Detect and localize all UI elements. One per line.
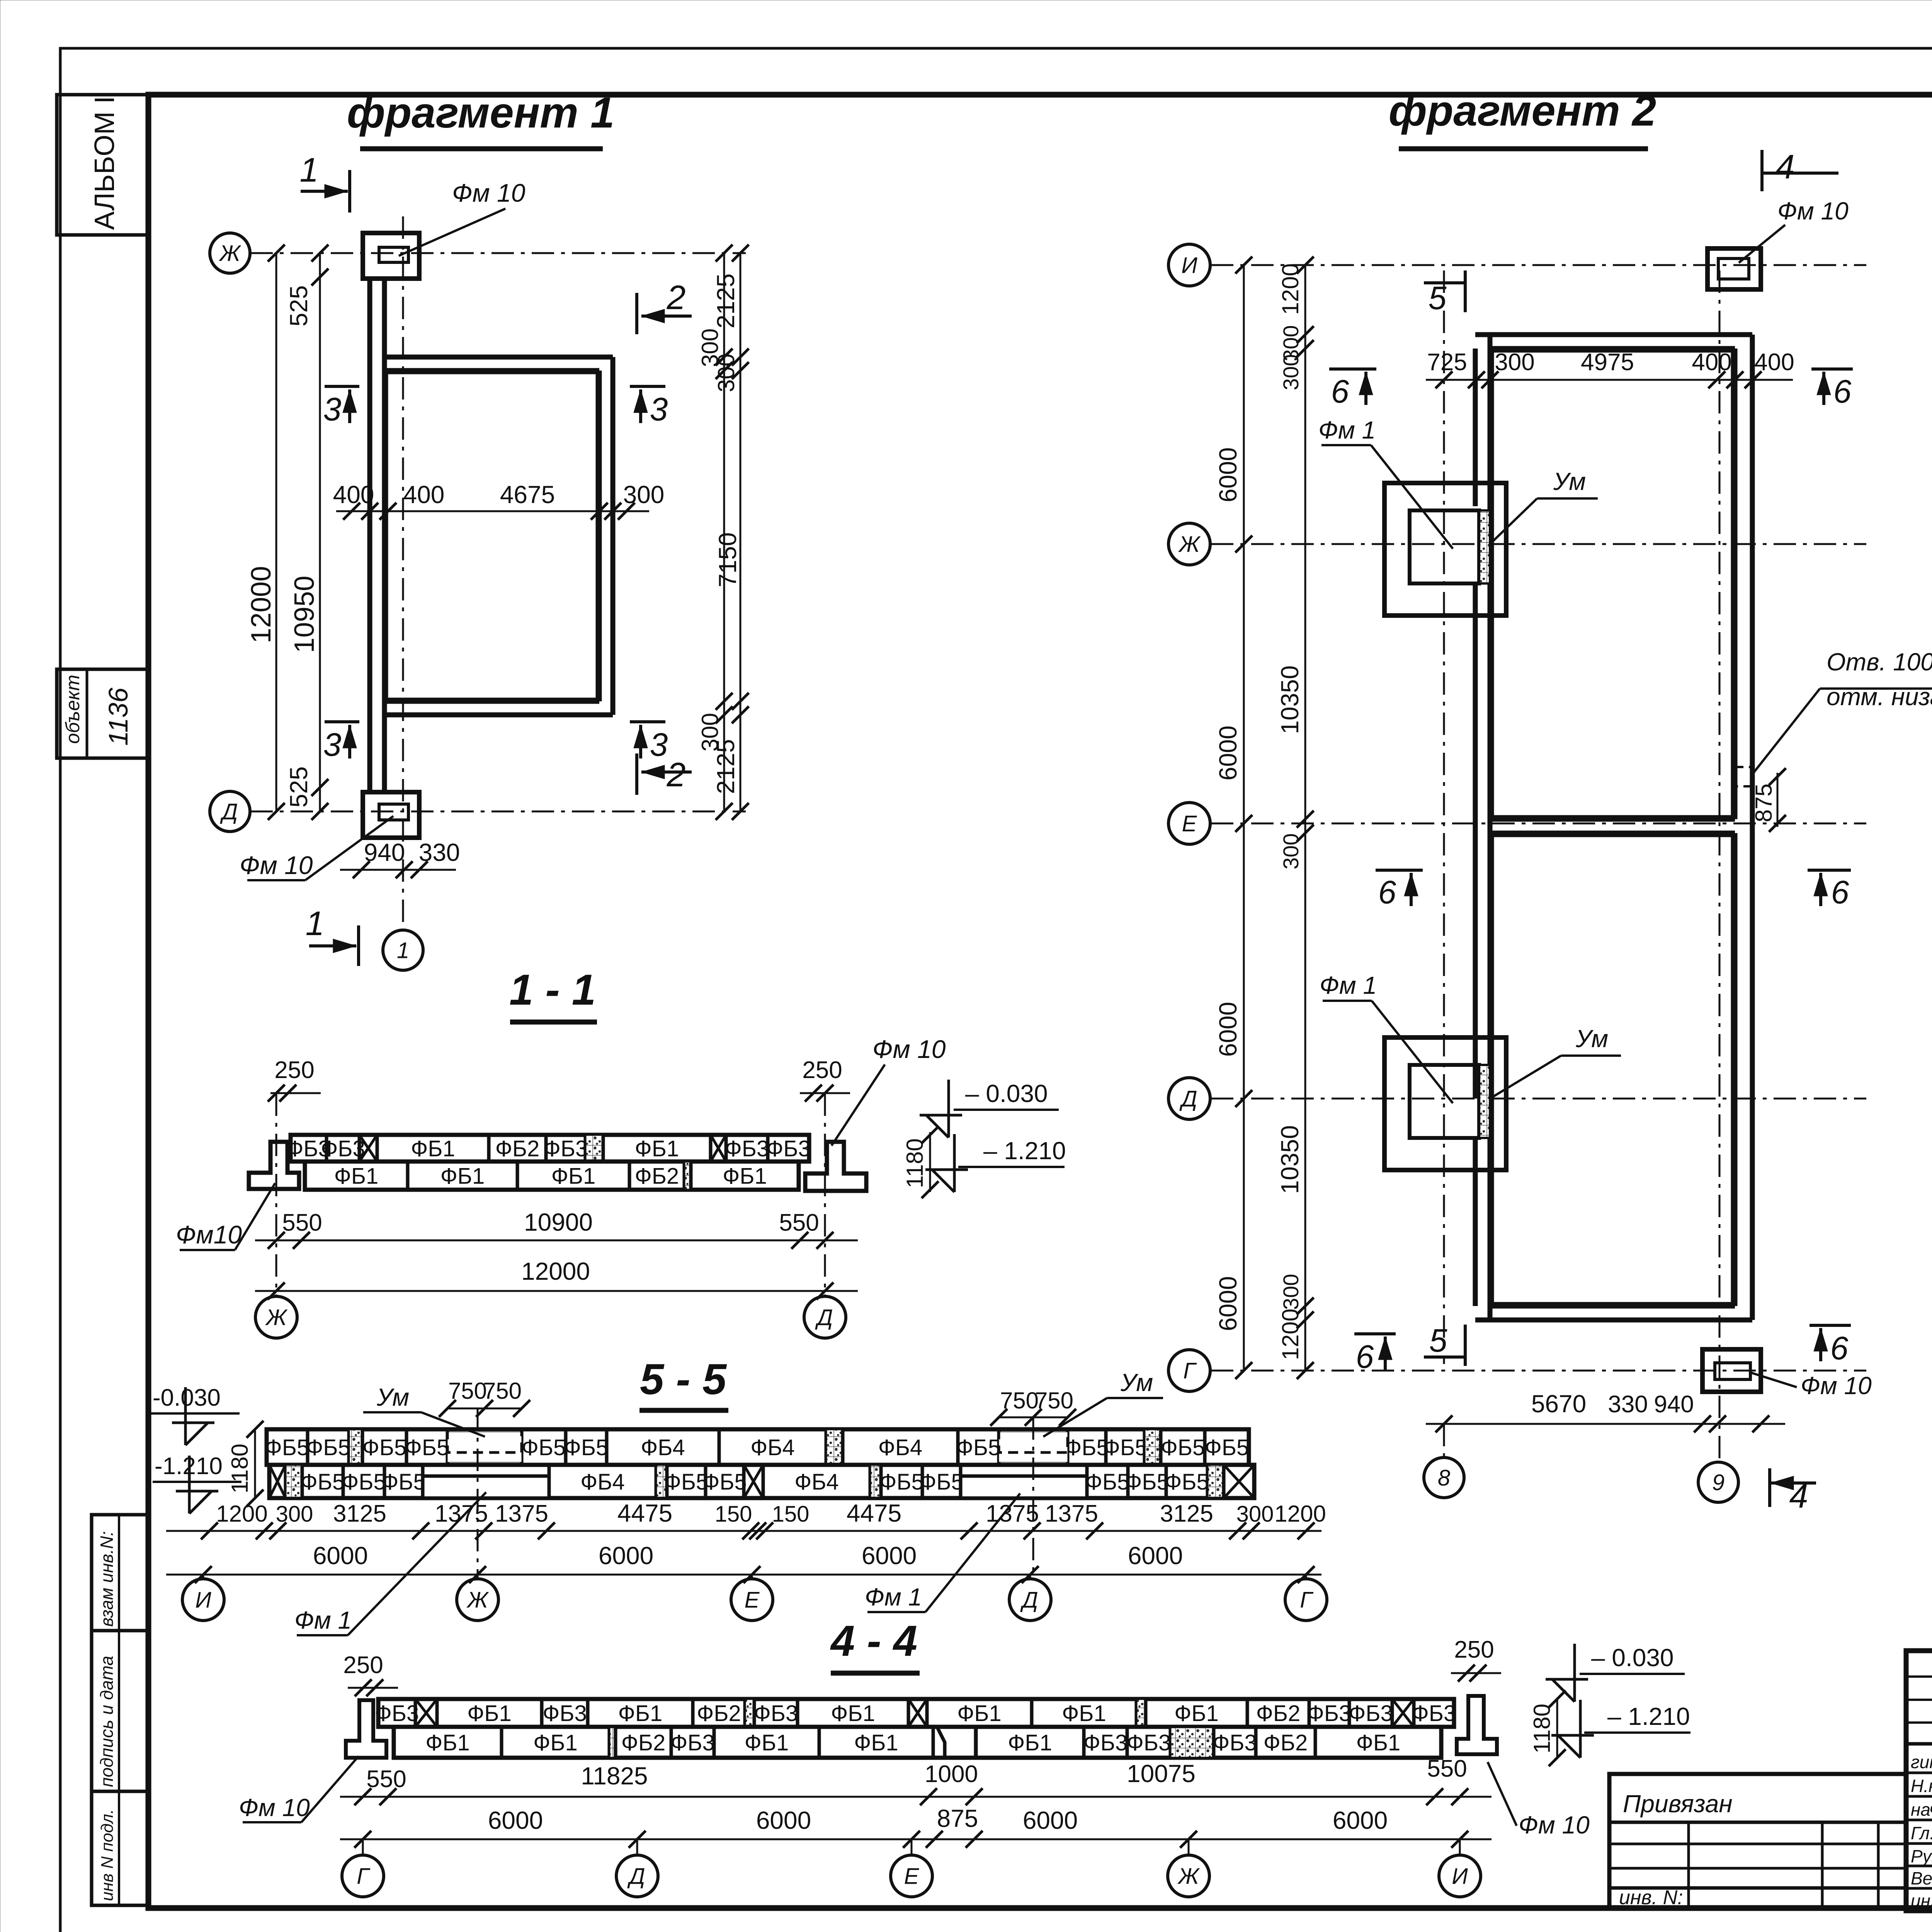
svg-text:150: 150 (772, 1502, 810, 1527)
svg-text:– 0.030: – 0.030 (965, 1080, 1048, 1107)
section mark 3 bottom left (325, 720, 359, 723)
grid circle D (210, 791, 250, 832)
svg-text:И: И (1452, 1864, 1468, 1889)
svg-text:ФБ3: ФБ3 (544, 1136, 588, 1161)
axis stub circle 9 (1698, 1462, 1738, 1502)
svg-text:ФБ5: ФБ5 (1165, 1469, 1209, 1495)
svg-text:550: 550 (282, 1209, 322, 1236)
svg-text:фрагмент 2: фрагмент 2 (1389, 87, 1656, 135)
svg-text:Вед.инж.: Вед.инж. (1911, 1868, 1932, 1888)
stamp box inv N podl (92, 1791, 148, 1905)
dim row2 section4-4 (340, 1838, 1492, 1840)
svg-text:300: 300 (1236, 1502, 1274, 1527)
svg-text:4: 4 (1776, 148, 1795, 186)
right end pier T section1-1 (805, 1142, 866, 1191)
svg-text:Ум: Ум (1575, 1025, 1608, 1053)
svg-text:Е: Е (904, 1864, 920, 1889)
svg-text:400: 400 (1692, 349, 1731, 376)
svg-text:9: 9 (1712, 1470, 1725, 1495)
svg-text:подпись и дата: подпись и дата (97, 1656, 117, 1787)
svg-text:550: 550 (366, 1766, 406, 1793)
svg-text:10350: 10350 (1276, 1125, 1304, 1194)
svg-text:ФБ1: ФБ1 (1062, 1701, 1106, 1726)
svg-text:– 0.030: – 0.030 (1591, 1644, 1674, 1672)
top wall fragment2 (1475, 332, 1752, 337)
svg-text:И: И (195, 1587, 211, 1612)
svg-text:1180: 1180 (902, 1138, 928, 1188)
monolith gap dashed left (447, 1432, 522, 1462)
grid circle Ж fragment2 (1168, 523, 1210, 565)
svg-text:ФБ1: ФБ1 (1174, 1701, 1218, 1726)
axis line Ж fragment2 (1211, 543, 1866, 545)
svg-text:гип: гип (1911, 1752, 1932, 1772)
dim row1 section4-4 (340, 1796, 1492, 1798)
svg-text:Фм 1: Фм 1 (865, 1583, 922, 1611)
svg-text:ФБ3: ФБ3 (670, 1730, 714, 1755)
svg-text:ФБ5: ФБ5 (1085, 1469, 1129, 1495)
svg-text:2: 2 (667, 755, 686, 794)
svg-text:1375: 1375 (1045, 1500, 1098, 1527)
svg-text:6: 6 (1378, 874, 1396, 910)
signature table (1906, 1651, 1932, 1911)
axis stub circle 8 (1443, 1424, 1445, 1457)
svg-text:330: 330 (419, 838, 460, 866)
svg-text:ФБ3: ФБ3 (725, 1136, 769, 1161)
svg-text:Гл.контр: Гл.контр (1911, 1823, 1932, 1843)
svg-text:1136: 1136 (103, 687, 133, 746)
section 4-4 bottom course (394, 1727, 1441, 1758)
svg-text:300: 300 (713, 354, 739, 392)
svg-text:6000: 6000 (862, 1542, 917, 1570)
svg-text:ФБ1: ФБ1 (467, 1701, 511, 1726)
svg-text:2: 2 (667, 278, 686, 316)
monolith strip left (423, 1476, 549, 1498)
axis line Zh (250, 252, 746, 254)
section mark 3 top right (630, 385, 665, 388)
svg-text:– 1.210: – 1.210 (1607, 1702, 1690, 1730)
svg-text:5: 5 (1429, 280, 1447, 316)
svg-text:400: 400 (1754, 349, 1794, 376)
svg-text:4675: 4675 (500, 481, 555, 509)
monolith gap dashed right (999, 1432, 1068, 1462)
section 5-5 top course (267, 1429, 1249, 1465)
dim line 12000 (276, 253, 277, 811)
svg-text:4475: 4475 (847, 1499, 901, 1527)
svg-text:ФБ1: ФБ1 (1356, 1730, 1400, 1755)
svg-text:6000: 6000 (1214, 726, 1242, 781)
svg-text:ФБ4: ФБ4 (878, 1435, 922, 1460)
svg-text:940: 940 (364, 838, 405, 866)
opening dashed rect (1736, 767, 1753, 786)
grid circle Д fragment2 (1168, 1078, 1210, 1119)
right wall (611, 357, 616, 715)
svg-text:3: 3 (650, 391, 668, 427)
left end pier T section4-4 (346, 1700, 386, 1758)
left end pier T section1-1 (249, 1142, 299, 1189)
svg-text:Ж: Ж (265, 1305, 288, 1330)
svg-text:2125: 2125 (712, 739, 740, 794)
svg-text:ФБ5: ФБ5 (405, 1435, 449, 1460)
pier Fm10 top right plan (1708, 248, 1761, 289)
svg-text:6: 6 (1830, 1330, 1849, 1366)
svg-text:750: 750 (483, 1378, 522, 1404)
svg-text:10075: 10075 (1127, 1760, 1196, 1787)
svg-text:1000: 1000 (925, 1761, 978, 1787)
svg-text:ФБ1: ФБ1 (1008, 1730, 1052, 1755)
svg-text:4 - 4: 4 - 4 (830, 1617, 917, 1665)
svg-text:6: 6 (1331, 373, 1349, 410)
svg-text:12000: 12000 (246, 566, 277, 643)
pier Fm10 bottom right plan (1702, 1349, 1761, 1392)
svg-text:фрагмент 1: фрагмент 1 (347, 88, 615, 137)
vertical axis line 1 (402, 216, 404, 925)
svg-text:ФБ5: ФБ5 (1065, 1435, 1109, 1460)
svg-text:ФБ3: ФБ3 (375, 1701, 419, 1726)
svg-text:3: 3 (323, 391, 342, 427)
svg-text:4475: 4475 (617, 1499, 672, 1527)
right dim line inner (723, 253, 725, 811)
svg-text:ФБ5: ФБ5 (879, 1469, 923, 1495)
section mark 6 bottom right (1810, 1324, 1851, 1327)
grid circles section5-5 (202, 1575, 204, 1578)
dim row1 section5-5 (166, 1530, 1321, 1532)
svg-text:Фм 1: Фм 1 (1320, 971, 1377, 999)
dim 1180 section1-1 (929, 1132, 931, 1192)
left wall fragment2 (1473, 349, 1478, 506)
svg-text:6000: 6000 (599, 1542, 653, 1570)
svg-text:ФБ2: ФБ2 (1256, 1701, 1300, 1726)
svg-text:Фм 10: Фм 10 (240, 851, 313, 879)
svg-text:ФБ5: ФБ5 (522, 1435, 566, 1460)
section 4-4 top course (378, 1699, 1454, 1727)
svg-text:Фм 10: Фм 10 (239, 1794, 310, 1821)
svg-text:Ум: Ум (1120, 1369, 1153, 1396)
svg-text:ФБ5: ФБ5 (1205, 1435, 1249, 1460)
grid circles section4-4 (362, 1839, 364, 1855)
dim 1180 section4-4 (1556, 1699, 1558, 1758)
svg-text:ФБ1: ФБ1 (635, 1136, 679, 1161)
svg-text:ФБ1: ФБ1 (551, 1163, 595, 1189)
svg-text:330: 330 (1608, 1391, 1648, 1418)
svg-text:300: 300 (1279, 833, 1303, 869)
svg-text:Фм 1: Фм 1 (1318, 416, 1376, 444)
right dim line outer (740, 253, 742, 811)
svg-text:Г: Г (357, 1864, 371, 1889)
svg-text:ФБ3: ФБ3 (1349, 1701, 1393, 1726)
top pier Fm10 plan (363, 233, 419, 279)
svg-text:инженер: инженер (1911, 1891, 1932, 1911)
grid axis 9 vertical (1719, 270, 1721, 1461)
privyazan box (1609, 1774, 1906, 1908)
svg-text:ФБ5: ФБ5 (1125, 1469, 1169, 1495)
svg-text:Рук.сект: Рук.сект (1911, 1846, 1932, 1866)
bottom wall fragment2 (1475, 1318, 1752, 1323)
svg-text:2125: 2125 (712, 274, 740, 328)
svg-text:5: 5 (1429, 1322, 1447, 1359)
svg-text:взам инв.N:: взам инв.N: (97, 1531, 117, 1627)
svg-text:И: И (1181, 253, 1197, 278)
svg-text:Д: Д (1020, 1587, 1038, 1612)
elevation -0.030 section4-4 (1546, 1644, 1588, 1702)
svg-text:10900: 10900 (524, 1208, 593, 1236)
dim line 10950 (319, 253, 321, 811)
svg-text:1200: 1200 (1274, 1501, 1326, 1527)
svg-text:ФБ5: ФБ5 (301, 1469, 345, 1495)
section mark 6 bottom left (1354, 1332, 1396, 1335)
svg-text:750: 750 (1035, 1388, 1073, 1413)
bottom dim row fragment2 (1426, 1423, 1785, 1425)
svg-text:6000: 6000 (1333, 1806, 1388, 1834)
pier Fm1 at D (1384, 1037, 1506, 1170)
axis line Е fragment2 (1211, 823, 1866, 825)
top dim row fragment2 (1426, 379, 1793, 381)
elevation -1.210 section4-4 (1551, 1700, 1594, 1758)
dim 750 750 left (447, 1408, 522, 1410)
svg-text:Фм 10: Фм 10 (1801, 1372, 1872, 1400)
svg-text:Н.контр: Н.контр (1911, 1776, 1932, 1796)
svg-text:1375: 1375 (435, 1500, 488, 1527)
svg-text:1200: 1200 (1277, 1309, 1303, 1360)
svg-text:ФБ4: ФБ4 (750, 1435, 794, 1460)
svg-text:ФБ2: ФБ2 (495, 1136, 539, 1161)
elevation -1.210 section1-1 (925, 1134, 968, 1192)
svg-text:ФБ1: ФБ1 (745, 1730, 789, 1755)
svg-text:ФБ3: ФБ3 (1127, 1730, 1171, 1755)
section mark 6 mid right (1808, 869, 1851, 872)
svg-text:250: 250 (274, 1057, 314, 1083)
svg-text:400: 400 (403, 481, 445, 509)
svg-text:6000: 6000 (488, 1806, 543, 1834)
fragment2 dim line inner (1304, 265, 1306, 1371)
svg-text:Д: Д (220, 799, 238, 824)
monolith strip right (961, 1476, 1087, 1498)
inner face outline room 1 (1493, 352, 1732, 816)
dim 1180 section5-5 (254, 1429, 256, 1498)
dim row2 section5-5 (166, 1574, 1321, 1576)
svg-text:Привязан: Привязан (1623, 1790, 1733, 1818)
svg-text:750: 750 (448, 1378, 487, 1404)
right wall fragment2 (1750, 335, 1755, 1320)
section 1-1 bottom course (305, 1162, 799, 1190)
svg-text:Д: Д (627, 1864, 645, 1889)
svg-text:ФБ5: ФБ5 (956, 1435, 1000, 1460)
pier Fm1 at Zh (1384, 483, 1506, 616)
svg-text:Е: Е (1182, 811, 1197, 836)
svg-text:Е: Е (745, 1587, 760, 1612)
svg-text:4: 4 (1789, 1477, 1808, 1515)
svg-text:ФБ5: ФБ5 (265, 1435, 309, 1460)
svg-text:3: 3 (650, 726, 668, 763)
svg-text:ФБ1: ФБ1 (440, 1163, 485, 1189)
axis line Д fragment2 (1211, 1098, 1866, 1100)
bottom pier Fm10 plan (363, 792, 419, 838)
svg-text:Фм 10: Фм 10 (872, 1035, 946, 1063)
svg-text:875: 875 (1751, 784, 1777, 822)
svg-text:875: 875 (937, 1804, 978, 1832)
inner face outline room 2 (1493, 836, 1732, 1303)
top wall (384, 355, 613, 360)
svg-text:3125: 3125 (333, 1500, 386, 1527)
svg-text:ФБ3: ФБ3 (1307, 1701, 1351, 1726)
section mark 6 top left (1329, 367, 1376, 371)
svg-text:ФБ2: ФБ2 (697, 1701, 741, 1726)
grid circle Е fragment2 (1168, 803, 1210, 844)
svg-text:3125: 3125 (1160, 1500, 1213, 1527)
stamp box vzam inv N (92, 1515, 148, 1631)
svg-text:ФБ5: ФБ5 (564, 1435, 608, 1460)
svg-text:инв N подл.: инв N подл. (98, 1809, 117, 1901)
section mark 6 mid left (1376, 869, 1423, 872)
svg-text:Ж: Ж (1178, 532, 1201, 557)
left wall (367, 279, 372, 792)
svg-text:300: 300 (1279, 1274, 1303, 1310)
svg-text:300: 300 (1495, 349, 1534, 376)
svg-text:ФБ4: ФБ4 (794, 1469, 838, 1495)
svg-text:1: 1 (397, 938, 409, 963)
grid circle И fragment2 (1168, 244, 1210, 286)
svg-text:ФБ2: ФБ2 (621, 1730, 665, 1755)
svg-text:ФБ5: ФБ5 (702, 1469, 747, 1495)
svg-text:инв. N:: инв. N: (1619, 1886, 1683, 1909)
svg-text:ФБ1: ФБ1 (723, 1163, 767, 1189)
svg-text:1200: 1200 (1277, 264, 1303, 315)
svg-text:250: 250 (802, 1057, 842, 1083)
svg-text:Отв. 1000х600 (h): Отв. 1000х600 (h) (1827, 648, 1932, 676)
svg-text:6000: 6000 (1214, 1276, 1242, 1331)
grid circle Zh (210, 233, 250, 273)
svg-text:ФБ1: ФБ1 (957, 1701, 1001, 1726)
svg-text:6: 6 (1831, 874, 1849, 910)
svg-text:250: 250 (343, 1652, 383, 1679)
dim 750 750 right (999, 1417, 1068, 1418)
svg-text:8: 8 (1438, 1465, 1450, 1490)
svg-text:1: 1 (306, 904, 325, 942)
section mark 4 bottom (1768, 1468, 1771, 1507)
svg-text:300: 300 (1279, 354, 1303, 390)
axis line D (250, 811, 746, 813)
axis line Г fragment2 (1211, 1370, 1866, 1372)
svg-text:300: 300 (623, 481, 665, 509)
svg-text:ФБ1: ФБ1 (411, 1136, 455, 1161)
svg-text:6000: 6000 (313, 1542, 368, 1570)
svg-text:ФБ5: ФБ5 (919, 1469, 963, 1495)
svg-text:Фм 1: Фм 1 (294, 1606, 352, 1634)
dim 875 (1777, 773, 1779, 827)
svg-text:Ж: Ж (1177, 1864, 1200, 1889)
svg-text:1180: 1180 (1529, 1704, 1555, 1753)
dim row 12000 (255, 1290, 858, 1292)
svg-text:АЛЬБОМ I: АЛЬБОМ I (89, 96, 120, 230)
svg-text:5670: 5670 (1531, 1390, 1586, 1418)
axis Zh section1-1 (276, 1094, 277, 1296)
svg-text:Фм 10: Фм 10 (1777, 197, 1849, 225)
svg-text:ФБ1: ФБ1 (533, 1730, 577, 1755)
svg-text:525: 525 (285, 766, 313, 808)
axis line И fragment2 (1211, 264, 1866, 266)
svg-text:1180: 1180 (227, 1444, 253, 1493)
svg-text:отм. низа – 1.210: отм. низа – 1.210 (1827, 683, 1932, 711)
dim row 400 400 4675 300 (336, 510, 649, 512)
svg-text:ФБ3: ФБ3 (766, 1136, 810, 1161)
stamp box object 1136 (57, 669, 148, 758)
svg-text:1: 1 (300, 151, 319, 189)
svg-text:6: 6 (1833, 373, 1852, 410)
svg-text:– 1.210: – 1.210 (983, 1137, 1066, 1165)
svg-text:ФБ4: ФБ4 (641, 1435, 685, 1460)
svg-text:Ум: Ум (376, 1383, 409, 1411)
svg-text:300: 300 (276, 1502, 313, 1527)
svg-text:Фм 10: Фм 10 (1519, 1811, 1590, 1839)
svg-text:1200: 1200 (216, 1501, 267, 1527)
svg-text:ФБ3: ФБ3 (543, 1701, 587, 1726)
middle wall at E (1490, 817, 1735, 822)
svg-text:нач.отд.: нач.отд. (1911, 1799, 1932, 1820)
svg-text:ФБ5: ФБ5 (306, 1435, 350, 1460)
svg-text:Ум: Ум (1553, 468, 1586, 495)
svg-text:6: 6 (1356, 1338, 1374, 1375)
vertical axes through 5-5 (477, 1408, 479, 1578)
svg-text:525: 525 (285, 285, 313, 327)
svg-text:10950: 10950 (289, 576, 320, 653)
svg-text:400: 400 (333, 481, 374, 509)
svg-text:ФБ3: ФБ3 (1213, 1730, 1257, 1755)
svg-text:Фм 10: Фм 10 (452, 179, 526, 207)
svg-text:Ж: Ж (218, 241, 241, 266)
svg-text:6000: 6000 (756, 1806, 811, 1834)
svg-text:940: 940 (1654, 1391, 1694, 1418)
svg-text:ФБ5: ФБ5 (1161, 1435, 1205, 1460)
svg-text:Г: Г (1183, 1358, 1197, 1383)
svg-text:1 - 1: 1 - 1 (509, 966, 596, 1014)
svg-text:150: 150 (715, 1502, 752, 1527)
section 5-5 bottom course (269, 1465, 1254, 1498)
svg-text:6000: 6000 (1023, 1806, 1078, 1834)
step joint 4-4 (937, 1727, 976, 1758)
svg-text:6000: 6000 (1214, 447, 1242, 502)
svg-text:10350: 10350 (1276, 665, 1304, 734)
svg-text:ФБ5: ФБ5 (362, 1435, 406, 1460)
stamp box podpis i data (92, 1631, 148, 1791)
svg-text:4975: 4975 (1581, 349, 1634, 376)
bottom wall (384, 713, 613, 718)
svg-text:725: 725 (1427, 349, 1467, 376)
inner face outline (387, 373, 597, 699)
svg-text:ФБ1: ФБ1 (831, 1701, 875, 1726)
section cut line 5 (1443, 270, 1445, 1364)
svg-text:ФБ5: ФБ5 (1103, 1435, 1147, 1460)
svg-text:ФБ5: ФБ5 (664, 1469, 708, 1495)
fragment2 dim line 6000s (1243, 265, 1245, 1371)
svg-text:ФБ3: ФБ3 (1083, 1730, 1128, 1755)
svg-text:250: 250 (1454, 1636, 1494, 1663)
svg-text:Д: Д (815, 1305, 833, 1330)
section mark 3 top left (325, 385, 359, 388)
svg-text:ФБ3: ФБ3 (1412, 1701, 1456, 1726)
elevation -0.030 section1-1 (920, 1080, 962, 1138)
svg-text:Д: Д (1179, 1086, 1197, 1111)
right end pier T section4-4 (1457, 1696, 1497, 1754)
svg-text:ФБ2: ФБ2 (1264, 1730, 1308, 1755)
svg-text:ФБ1: ФБ1 (618, 1701, 662, 1726)
svg-text:ФБ1: ФБ1 (334, 1163, 378, 1189)
svg-text:объект: объект (62, 675, 83, 744)
svg-text:ФБ2: ФБ2 (635, 1163, 679, 1189)
svg-text:Ж: Ж (466, 1587, 489, 1612)
grid circle Г fragment2 (1168, 1350, 1210, 1391)
svg-text:11825: 11825 (581, 1762, 648, 1790)
svg-text:ФБ5: ФБ5 (342, 1469, 386, 1495)
svg-text:Г: Г (1300, 1587, 1314, 1612)
